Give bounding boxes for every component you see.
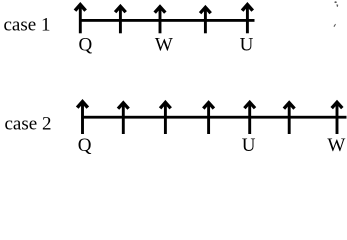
svg-text:Q: Q <box>78 135 92 156</box>
svg-text:U: U <box>242 135 256 156</box>
svg-text:U: U <box>240 35 254 56</box>
svg-text:Q: Q <box>79 35 93 56</box>
svg-text:case 2: case 2 <box>5 113 52 134</box>
svg-text:case 1: case 1 <box>4 15 51 36</box>
svg-text:W: W <box>155 35 173 56</box>
svg-text:W: W <box>327 135 345 156</box>
